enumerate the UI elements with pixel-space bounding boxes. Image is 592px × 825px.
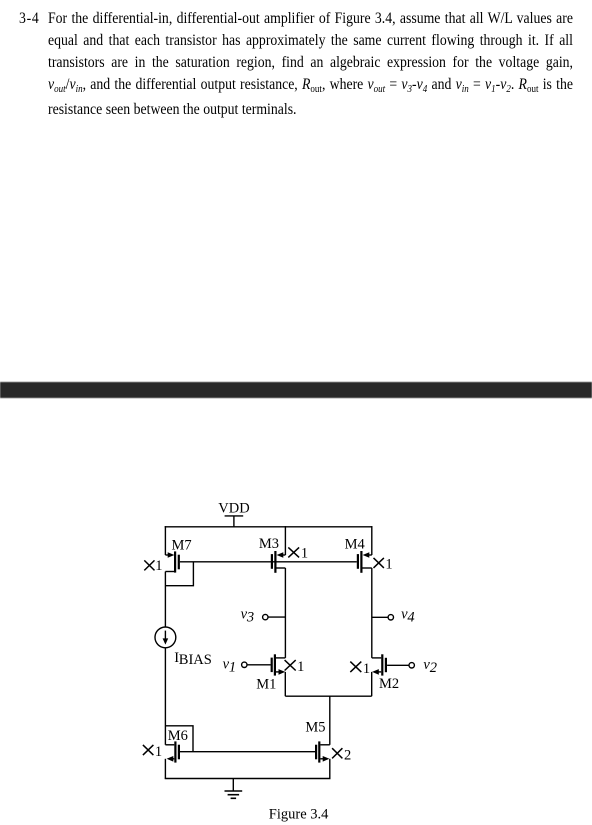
wire M2 source lead [377,671,381,673]
ground stem [232,779,234,792]
svg-text:M7: M7 [172,538,192,554]
wire M5 drain lead [320,744,329,746]
transistor M7 channel bar [174,551,176,572]
wire M7 source lead [165,554,169,556]
wire tail [285,695,371,697]
transistor M3 channel bar [274,551,276,573]
wire M1 source lead [276,671,280,673]
wire M4 source vertical [371,526,373,555]
multiplier x1 of M4 [374,558,384,568]
top wire VDD rail [165,526,373,528]
transistor M5 channel bar [318,741,320,762]
svg-text:3: 3 [246,609,254,625]
transistor M2 gate bar [385,658,387,672]
wire M3 drain lead [277,567,286,569]
multiplier x1 of M3 [288,547,299,557]
arrow M5 source (points right) [323,756,330,762]
arrow IBIAS (points down) [163,638,169,644]
transistor M2 channel bar [381,654,383,675]
svg-text:1: 1 [301,546,308,562]
wire M6 source down [164,759,166,779]
VDD bar [225,515,244,517]
wire M4 drain to M2 drain vertical [371,568,373,658]
wire M3 source lead [282,554,286,556]
wire M2 gate to v2 [387,664,409,666]
multiplier x1 of M1 [285,660,296,670]
wire IBIAS to M6 drain [164,648,166,745]
wire M3 drain to M1 drain vertical [284,568,286,658]
ground bar 2 [228,794,240,796]
svg-text:M6: M6 [168,728,188,744]
transistor M1 gate bar [271,658,273,673]
arrow M7 source (points right) [168,552,175,558]
svg-text:1: 1 [229,659,236,675]
svg-text:M5: M5 [305,720,325,736]
wire M2 drain lead [372,657,381,659]
arrow M3 source (points left) [277,552,284,558]
transistor M5 gate bar [315,745,317,760]
problem text [19,8,40,30]
svg-text:M2: M2 [379,676,399,692]
wire M2 source down to tail [371,672,373,696]
svg-text:Figure 3.4: Figure 3.4 [269,806,329,822]
svg-text:M1: M1 [256,677,276,693]
arrow M6 source (points left) [167,756,174,762]
wire M4 drain lead [363,567,372,569]
wire M3 source vertical [284,526,286,555]
current source IBIAS [155,627,176,648]
transistor M4 channel bar [360,551,362,573]
svg-text:4: 4 [407,609,414,625]
wire M5 source lead [320,758,324,760]
wire tail to M5 drain [329,696,331,745]
node v2 circle [409,663,414,668]
wire rail M7 drain to IBIAS [164,572,166,628]
wire M7 gate to M4 gate line [180,561,357,563]
svg-text:1: 1 [155,558,162,574]
wire M6 diode jog [165,726,193,752]
bottom wire ground rail [165,778,331,780]
transistor M7 gate bar [178,555,180,570]
ground bar 1 [225,790,243,792]
svg-text:2: 2 [344,748,351,764]
wire M1 drain lead [276,657,285,659]
arrow M2 source (points left) [372,669,379,675]
transistor M6 channel bar [174,741,176,762]
transistor M3 gate bar [271,554,273,569]
svg-text:VDD: VDD [218,501,249,517]
node v3 circle [263,614,268,619]
wire M7 diode connection [165,562,193,586]
svg-text:M3: M3 [259,536,279,552]
multiplier x1 of M6 [143,745,154,755]
wire rail to M7 source [164,526,166,555]
node v4 circle [388,615,393,620]
svg-text:BIAS: BIAS [179,652,212,668]
transistor M4 gate bar [357,554,359,569]
wire M1 source down to tail [284,672,286,696]
node v1 circle [242,662,247,667]
wire M7 drain lead [165,571,174,573]
arrow M1 source (points right) [279,669,286,675]
svg-text:2: 2 [430,660,437,676]
multiplier x2 of M5 [332,748,342,758]
wire M6 drain lead [165,744,174,746]
ground bar 3 [231,797,237,799]
wire M4 source lead [368,554,372,556]
wire v1 to M1 gate [247,664,271,666]
svg-text:M4: M4 [345,536,366,552]
multiplier x1 of M7 [144,560,154,570]
transistor M6 gate bar [178,745,180,760]
svg-text:1: 1 [363,661,370,677]
svg-text:1: 1 [155,744,162,760]
arrow M4 source (points left) [363,552,370,558]
svg-text:1: 1 [385,556,392,572]
svg-text:1: 1 [297,659,304,675]
wire M6 source lead [172,758,175,760]
transistor M1 channel bar [274,654,276,675]
VDD stem wire [233,516,235,527]
multiplier x1 of M2 [350,662,361,673]
separator bar [0,382,592,398]
wire M5 source down [329,759,331,779]
wire M6 gate to M5 gate line [180,751,316,753]
wire v3 tap [268,616,285,618]
wire v4 tap [372,616,388,618]
